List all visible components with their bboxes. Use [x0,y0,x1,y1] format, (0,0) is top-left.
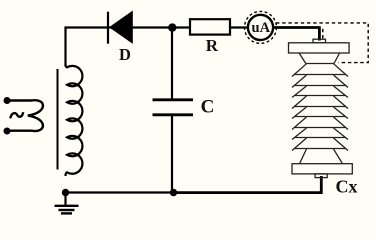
svg-text:uA: uA [252,20,271,36]
svg-text:D: D [119,45,131,64]
svg-text:Cx: Cx [336,176,358,196]
svg-text:R: R [206,36,219,55]
svg-text:C: C [201,97,215,118]
